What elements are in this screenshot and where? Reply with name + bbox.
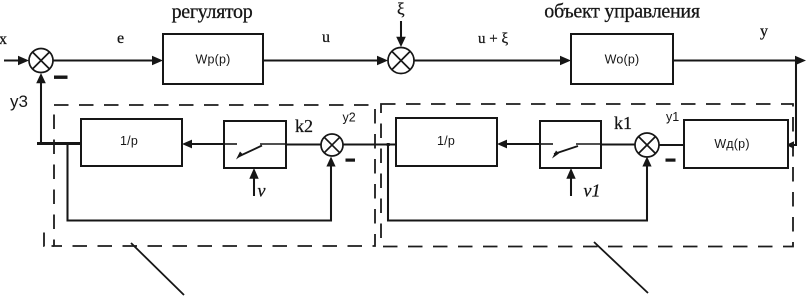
svg-text:1/p: 1/p	[437, 134, 455, 148]
svg-text:1/p: 1/p	[120, 134, 138, 148]
svg-text:ν1: ν1	[584, 181, 601, 201]
svg-text:x: x	[0, 31, 7, 48]
svg-text:y: y	[760, 23, 768, 40]
svg-text:y3: y3	[10, 92, 28, 111]
svg-text:y2: y2	[343, 111, 356, 125]
svg-text:k2: k2	[295, 116, 313, 136]
svg-text:ν: ν	[258, 181, 266, 201]
svg-text:объект управления: объект управления	[544, 1, 700, 23]
svg-text:u + ξ: u + ξ	[478, 31, 508, 47]
svg-text:Wo(p): Wo(p)	[605, 53, 640, 67]
svg-text:u: u	[322, 29, 330, 46]
svg-text:k1: k1	[614, 113, 632, 133]
svg-text:y1: y1	[666, 110, 679, 124]
svg-text:ξ: ξ	[397, 0, 405, 19]
svg-text:регулятор: регулятор	[172, 1, 253, 23]
svg-text:Wp(p): Wp(p)	[195, 53, 230, 67]
svg-text:Wд(p): Wд(p)	[714, 137, 749, 151]
svg-text:e: e	[117, 30, 124, 47]
